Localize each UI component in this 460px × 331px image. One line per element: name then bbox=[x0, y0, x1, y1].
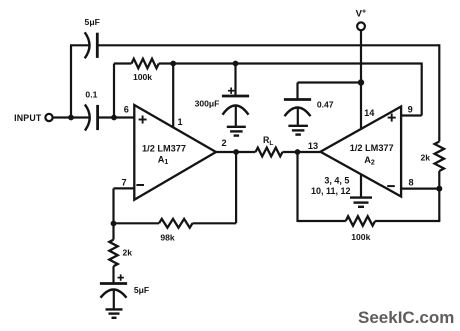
svg-text:14: 14 bbox=[364, 108, 375, 118]
svg-text:98k: 98k bbox=[160, 233, 175, 243]
svg-text:2: 2 bbox=[221, 138, 226, 148]
op-amp U1 1/2 LM377 A1 bbox=[134, 105, 216, 200]
svg-text:5μF: 5μF bbox=[85, 17, 100, 27]
svg-text:100k: 100k bbox=[351, 232, 370, 242]
capacitor C2 0.1 input coupling bbox=[71, 116, 90, 118]
capacitor C4 0.47 supply bypass bbox=[296, 83, 298, 100]
svg-text:1/2 LM377: 1/2 LM377 bbox=[350, 143, 394, 153]
svg-text:6: 6 bbox=[124, 105, 129, 115]
node pin 13 junction bbox=[295, 149, 301, 155]
node V+ junction bbox=[358, 79, 364, 85]
resistor R3 2k to ground bbox=[112, 223, 114, 239]
capacitor C3 300uF bbox=[222, 95, 249, 98]
svg-text:5μF: 5μF bbox=[134, 285, 149, 295]
wire R5 to pin 13 node bbox=[298, 220, 346, 222]
svg-text:100k: 100k bbox=[133, 72, 152, 82]
wire R4 down to pin 8 node bbox=[438, 171, 440, 221]
node 300uF junction bbox=[233, 61, 239, 67]
wire A2 common pins to ground bbox=[360, 174, 362, 197]
wire right edge vertical down to 2k bbox=[438, 44, 440, 141]
ground below C3 bbox=[227, 126, 246, 128]
svg-text:0.1: 0.1 bbox=[85, 90, 97, 100]
wire pin 8 bbox=[401, 188, 439, 190]
wire pin 2 output to load bbox=[216, 151, 256, 153]
wire pin 1 bbox=[172, 64, 174, 128]
node pin 7 junction bbox=[111, 221, 117, 227]
wire C5 to ground bbox=[113, 291, 115, 310]
node A junction bbox=[68, 115, 74, 121]
wire C4 to ground bbox=[297, 109, 299, 126]
svg-text:0.47: 0.47 bbox=[317, 100, 334, 110]
svg-text:1: 1 bbox=[177, 117, 182, 127]
svg-text:RL: RL bbox=[263, 135, 273, 147]
capacitor C5 5uF bbox=[100, 282, 127, 285]
wire stub to capacitor C3 bbox=[234, 64, 236, 97]
wire C3 to ground bbox=[235, 107, 237, 127]
wire node B up to feedback rail bbox=[113, 64, 115, 119]
wire pin 7 bbox=[114, 187, 135, 189]
wire to capacitor C1 bbox=[70, 44, 89, 46]
svg-text:2k: 2k bbox=[123, 248, 133, 258]
op-amp U2 1/2 LM377 A2 bbox=[320, 107, 401, 197]
wire C4 top to V+ node bbox=[298, 81, 362, 83]
svg-text:V+: V+ bbox=[356, 8, 366, 19]
svg-text:SeekIC.com: SeekIC.com bbox=[358, 308, 454, 327]
wire bottom to resistor R5 bbox=[375, 220, 440, 222]
capacitor C1 5uF coupling bbox=[85, 32, 90, 58]
V+ terminal bbox=[357, 22, 365, 30]
node pin1 junction bbox=[170, 61, 176, 67]
node pin 8 junction bbox=[436, 186, 442, 192]
wire C2 to pin 6 bbox=[98, 116, 135, 118]
wire RL to pin 13 bbox=[283, 151, 321, 153]
node B junction at pin 6 bbox=[111, 115, 117, 121]
wire pin 9 loop bbox=[421, 63, 423, 116]
svg-text:7: 7 bbox=[121, 178, 126, 188]
svg-text:8: 8 bbox=[408, 178, 413, 188]
svg-text:13: 13 bbox=[308, 141, 318, 151]
svg-text:300μF: 300μF bbox=[195, 99, 220, 109]
wire R3 to capacitor C5 bbox=[112, 266, 114, 283]
wire node to resistor R2 bbox=[114, 222, 160, 224]
svg-text:10, 11, 12: 10, 11, 12 bbox=[311, 186, 351, 196]
ground below C5 bbox=[106, 308, 123, 310]
wire input to node A bbox=[53, 116, 71, 118]
input terminal bbox=[45, 114, 52, 121]
wire to resistor R1 bbox=[114, 62, 132, 64]
wire node A up to top rail bbox=[70, 45, 72, 118]
resistor RL load bbox=[256, 148, 283, 157]
svg-text:3, 4, 5: 3, 4, 5 bbox=[324, 176, 349, 186]
svg-text:2k: 2k bbox=[421, 153, 431, 163]
resistor R2 98k feedback bbox=[159, 219, 193, 228]
wire top rail from C1 to right edge bbox=[97, 44, 439, 46]
svg-text:1/2 LM377: 1/2 LM377 bbox=[142, 143, 186, 153]
ground below U2 bbox=[350, 196, 372, 198]
resistor R5 100k feedback bbox=[346, 216, 375, 225]
ground below C4 bbox=[288, 125, 308, 127]
resistor R4 2k bootstrap bbox=[435, 142, 444, 172]
resistor R1 100k feedback bbox=[132, 59, 159, 68]
wire feedback rail to pin 9 corner bbox=[159, 62, 422, 64]
wire V+ down to pin 14 bbox=[360, 30, 362, 129]
node pin 2 junction bbox=[233, 149, 239, 155]
svg-text:INPUT: INPUT bbox=[14, 113, 42, 123]
wire R2 to A1 output bbox=[193, 222, 237, 224]
svg-text:9: 9 bbox=[408, 105, 413, 115]
